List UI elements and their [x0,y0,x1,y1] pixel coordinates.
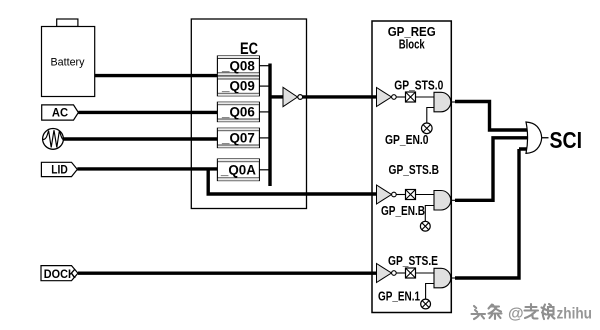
wire battery to Q08/Q09 [95,74,218,77]
inverter row3 [377,264,397,283]
wire row1 output to OR input 1 [455,102,530,131]
svg-text:GP_STS.0: GP_STS.0 [394,78,443,92]
wire RI to Q07 [63,137,217,140]
svg-text:DOCK: DOCK [44,269,77,281]
wire DOCK to GP_REG row3 inverter [78,272,377,275]
wire row3 AND to block edge [451,277,456,279]
wire row3 bubble to status box [396,272,405,274]
enable circle GP_EN.0 [422,123,433,134]
wire row3 status box to AND [416,272,435,274]
wire row1 status box to AND [416,96,435,98]
AND gate row1 [434,92,451,112]
status box GP_STS.E [406,268,416,278]
svg-text:GP_EN.0: GP_EN.0 [385,133,429,147]
svg-text:GP_EN.B: GP_EN.B [381,204,425,218]
wire Q08 to bus [259,65,268,67]
wire Q0A to bus [259,169,268,171]
watermark [472,305,555,320]
svg-text:GP_STS.E: GP_STS.E [388,254,438,268]
svg-text:zhihu: zhihu [557,306,593,323]
AND gate row2 [434,191,451,211]
wire row1 bubble to status box [396,96,405,98]
register Q08 [217,56,259,75]
svg-text:LID: LID [51,164,68,176]
register Q09 [217,76,259,95]
EC inverter [283,87,303,106]
wire Q06 to bus [259,111,268,113]
enable line row3 [426,284,434,300]
wire row2 output to OR input 2 [455,138,530,201]
svg-text:@: @ [508,306,524,323]
svg-text:Battery: Battery [51,57,85,69]
svg-text:AC: AC [52,108,68,120]
wire EC inverter to GP_REG row1 inverter [303,95,377,98]
svg-text:GP_EN.1: GP_EN.1 [378,290,420,304]
svg-text:GP_STS.B: GP_STS.B [389,163,440,177]
bus vertical wire [268,64,271,187]
GP_REG block [372,21,451,313]
enable line row2 [425,206,434,222]
svg-text:_Q08: _Q08 [221,58,255,73]
AND gate row3 [434,268,451,288]
svg-text:_Q07: _Q07 [221,131,255,146]
inverter row1 [377,88,397,107]
wire row2 status box to AND [416,194,435,196]
battery symbol [42,19,95,97]
ring indicator symbol [43,129,64,150]
wire LID to Q0A [77,167,217,170]
wire bus to EC inverter [269,95,284,98]
wire row1 AND to block edge [451,101,456,103]
svg-text:EC: EC [240,40,258,58]
enable circle GP_EN.B [420,221,430,231]
enable circle GP_EN.1 [421,299,431,309]
svg-text:_Q06: _Q06 [221,105,255,120]
wire LID tap to GP_REG row2 inverter [207,170,378,194]
input flag AC [42,105,79,120]
wire OR output [542,137,549,139]
svg-text:Block: Block [399,38,425,52]
input flag DOCK [41,266,78,281]
svg-text:_Q0A: _Q0A [220,162,256,177]
wire Q09 to bus [259,85,268,87]
input flag LID [41,162,77,176]
wire row3 output to OR input 3 [455,149,528,278]
svg-text:_Q09: _Q09 [221,79,255,94]
wire AC to Q06 [78,111,217,114]
register Q06 [217,102,259,121]
register Q07 [217,128,259,147]
status box GP_STS.0 [406,92,416,102]
EC block [191,19,306,209]
enable line row1 [427,108,434,124]
wire row2 AND to block edge [451,199,456,201]
wire row2 bubble to status box [396,194,405,196]
inverter row2 [377,185,397,204]
wire Q07 to bus [259,137,268,139]
OR gate [526,122,542,153]
register Q0A [217,159,259,181]
svg-text:SCI: SCI [550,127,583,153]
status box GP_STS.B [406,190,416,200]
